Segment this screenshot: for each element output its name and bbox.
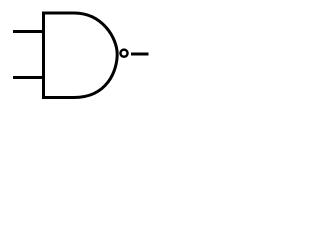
- input wire A (top): [13, 30, 45, 33]
- NAND gate U1: [0, 0, 166, 113]
- output wire Y: [131, 53, 149, 56]
- NAND gate body: [44, 13, 118, 98]
- input wire B (bottom): [13, 76, 45, 79]
- inversion bubble: [120, 50, 127, 57]
